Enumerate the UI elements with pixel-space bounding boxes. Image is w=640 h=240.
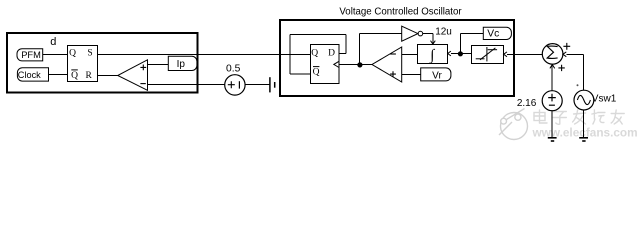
svg-text:Q: Q <box>71 71 78 81</box>
svg-text:Q: Q <box>69 49 76 59</box>
svg-text:Vsw1: Vsw1 <box>592 93 617 104</box>
svg-text:Clock: Clock <box>18 70 41 80</box>
svg-text:Q: Q <box>311 49 318 59</box>
svg-text:S: S <box>87 49 92 59</box>
svg-text:0.5: 0.5 <box>226 64 241 75</box>
svg-text:R: R <box>86 71 93 81</box>
svg-text:12u: 12u <box>435 27 452 38</box>
svg-text:2.16: 2.16 <box>517 98 537 109</box>
svg-text:D: D <box>328 49 335 59</box>
svg-text:Voltage Controlled Oscillator: Voltage Controlled Oscillator <box>339 6 462 17</box>
svg-text:Ip: Ip <box>177 59 186 70</box>
svg-text:Vr: Vr <box>432 71 442 82</box>
svg-text:Q: Q <box>313 67 320 77</box>
svg-text:d: d <box>50 36 56 48</box>
svg-text:PFM: PFM <box>21 50 41 60</box>
svg-text:Vc: Vc <box>487 29 499 40</box>
